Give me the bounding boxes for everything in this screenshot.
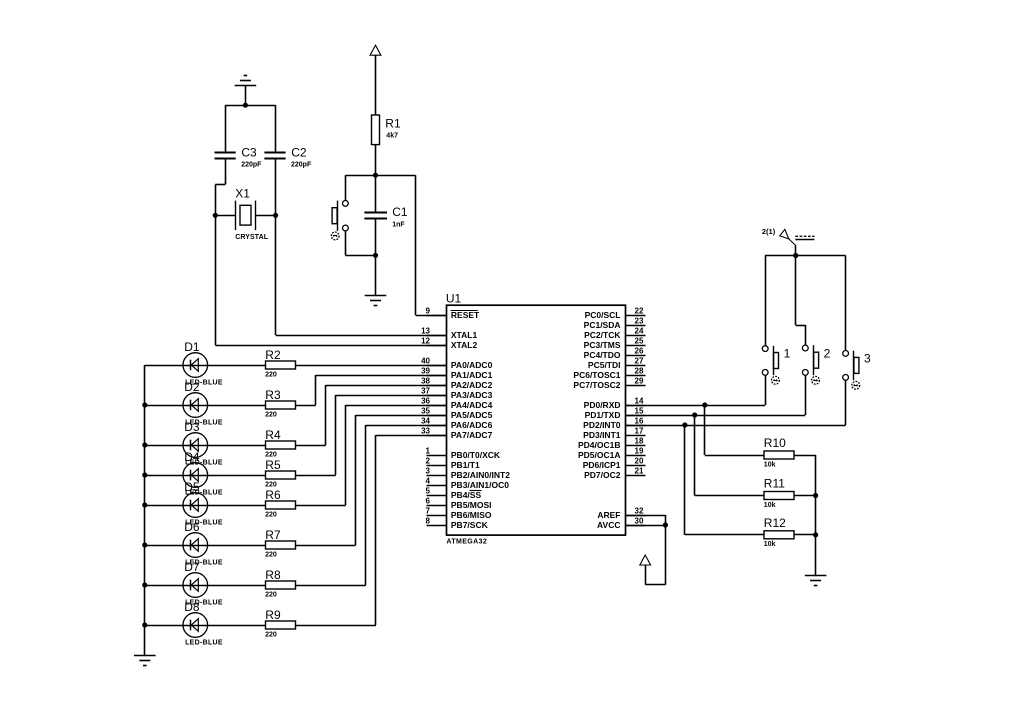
- PB4/SS overline: [470, 490, 482, 492]
- svg-text:29: 29: [635, 376, 644, 385]
- wire reset net horizontal: [345, 175, 415, 177]
- svg-text:220: 220: [265, 412, 277, 419]
- svg-text:32: 32: [635, 506, 644, 515]
- wire PD0 down to R10: [705, 405, 765, 456]
- svg-text:PA0/ADC0: PA0/ADC0: [451, 360, 493, 370]
- svg-text:220: 220: [265, 512, 277, 519]
- pin 25 stub (right): [626, 336, 646, 345]
- svg-text:PB0/T0/XCK: PB0/T0/XCK: [451, 450, 501, 460]
- svg-text:PC3/TMS: PC3/TMS: [584, 340, 621, 350]
- svg-text:PD5/OC1A: PD5/OC1A: [578, 450, 621, 460]
- wire reset net to U1 pin 9: [416, 175, 447, 315]
- node rail row 2: [142, 402, 147, 407]
- wire D2 to R3: [208, 405, 266, 407]
- svg-text:12: 12: [421, 336, 430, 345]
- svg-text:21: 21: [635, 466, 644, 475]
- svg-text:C3: C3: [241, 146, 257, 160]
- pin 28 stub (right): [626, 366, 646, 375]
- resistor R2: [265, 348, 295, 379]
- svg-text:PD4/OC1B: PD4/OC1B: [578, 440, 621, 450]
- svg-text:PA4/ADC4: PA4/ADC4: [451, 400, 493, 410]
- svg-text:24: 24: [635, 326, 644, 335]
- ground (pulldowns): [805, 576, 827, 586]
- svg-text:1nF: 1nF: [392, 222, 405, 229]
- wire R1 bottom to node: [375, 145, 377, 176]
- svg-text:220pF: 220pF: [291, 162, 312, 169]
- wire rail to D7: [145, 585, 183, 587]
- op-amp U1 outline (ATMEGA32): [447, 305, 626, 535]
- svg-text:23: 23: [635, 316, 644, 325]
- pin 38 stub (left): [421, 376, 446, 385]
- svg-text:ATMEGA32: ATMEGA32: [446, 538, 487, 545]
- svg-text:R10: R10: [764, 436, 786, 450]
- svg-text:R7: R7: [265, 528, 281, 542]
- pin 2 stub (left): [426, 456, 447, 465]
- svg-text:36: 36: [421, 396, 430, 405]
- svg-text:PB5/MOSI: PB5/MOSI: [451, 500, 492, 510]
- svg-text:R8: R8: [265, 568, 281, 582]
- pin 5 stub (left): [426, 486, 447, 495]
- svg-text:PD0/RXD: PD0/RXD: [584, 400, 621, 410]
- pin 16 stub (right): [626, 416, 646, 425]
- svg-text:14: 14: [635, 396, 644, 405]
- power symbol (top of R1): [370, 45, 381, 115]
- svg-text:D3: D3: [184, 420, 200, 434]
- wire rail to D4: [145, 475, 183, 477]
- LED D2: [183, 380, 223, 427]
- svg-text:4: 4: [426, 476, 431, 485]
- svg-text:R6: R6: [265, 488, 281, 502]
- svg-text:220: 220: [265, 632, 277, 639]
- resistor R3: [265, 388, 295, 419]
- wire R8 to U1 pin 34: [296, 425, 447, 586]
- wire PD1 down to R11: [695, 415, 765, 496]
- node R12 right: [813, 532, 818, 537]
- svg-text:19: 19: [635, 446, 644, 455]
- svg-text:20: 20: [635, 456, 644, 465]
- pin 18 stub (right): [626, 436, 646, 445]
- svg-text:1: 1: [784, 346, 791, 360]
- pin 36 stub (left): [421, 396, 446, 405]
- svg-text:16: 16: [635, 416, 644, 425]
- svg-text:R4: R4: [265, 428, 281, 442]
- node R11 right: [813, 493, 818, 498]
- svg-text:XTAL2: XTAL2: [451, 340, 478, 350]
- pin 27 stub (right): [626, 356, 646, 365]
- svg-text:CRYSTAL: CRYSTAL: [235, 234, 269, 241]
- svg-text:8: 8: [426, 516, 431, 525]
- node junction C3/C2 top: [243, 103, 248, 108]
- pin 32 stub (right): [626, 506, 646, 515]
- resistor R11: [764, 477, 794, 509]
- svg-text:13: 13: [421, 326, 430, 335]
- wire button 2 to PD1: [805, 375, 807, 415]
- svg-text:PB4/SS: PB4/SS: [451, 490, 482, 500]
- LED D3: [183, 420, 223, 467]
- svg-text:RESET: RESET: [451, 310, 480, 320]
- svg-text:R12: R12: [764, 516, 786, 530]
- wire D4 to R5: [208, 475, 266, 477]
- svg-text:PA1/ADC1: PA1/ADC1: [451, 370, 493, 380]
- svg-text:2(1): 2(1): [762, 227, 776, 236]
- pin 8 stub (left): [426, 516, 447, 525]
- svg-text:XTAL1: XTAL1: [451, 330, 478, 340]
- svg-text:17: 17: [635, 426, 644, 435]
- wire to button 3: [845, 256, 847, 351]
- capacitor C2: [264, 146, 312, 169]
- svg-text:D8: D8: [184, 600, 200, 614]
- resistor R6: [265, 488, 295, 519]
- svg-text:D2: D2: [184, 380, 200, 394]
- wire rail to D2: [145, 405, 183, 407]
- node rail row 6: [142, 542, 147, 547]
- node crystal right pin: [273, 213, 278, 218]
- wire rail to D5: [145, 505, 183, 507]
- svg-text:PB6/MISO: PB6/MISO: [451, 510, 492, 520]
- node rail row 7: [142, 582, 147, 587]
- wire to reset button top: [345, 175, 347, 200]
- svg-text:PA6/ADC6: PA6/ADC6: [451, 420, 493, 430]
- pin 4 stub (left): [426, 476, 447, 485]
- pin 15 stub (right): [626, 406, 646, 415]
- wire D5 to R6: [208, 505, 266, 507]
- pin 24 stub (right): [626, 326, 646, 335]
- svg-text:PD3/INT1: PD3/INT1: [583, 430, 621, 440]
- svg-text:U1: U1: [446, 291, 462, 305]
- svg-text:PA2/ADC2: PA2/ADC2: [451, 380, 493, 390]
- svg-text:28: 28: [635, 366, 644, 375]
- svg-text:R9: R9: [265, 608, 281, 622]
- wire D1 to R2: [208, 365, 266, 367]
- svg-text:25: 25: [635, 336, 644, 345]
- pin 21 stub (right): [626, 466, 646, 475]
- push button (reset): [331, 201, 348, 240]
- svg-text:1: 1: [426, 446, 431, 455]
- capacitor C1: [364, 175, 407, 255]
- pin 26 stub (right): [626, 346, 646, 355]
- node power rail: [793, 253, 798, 258]
- wire R12 to ground rail: [794, 534, 816, 536]
- svg-text:27: 27: [635, 356, 644, 365]
- node rail row 8: [142, 622, 147, 627]
- pin 34 stub (left): [421, 416, 446, 425]
- LED D6: [183, 520, 223, 567]
- node PD2/R12: [682, 422, 687, 427]
- wire R4 to U1 pin 38: [296, 385, 447, 446]
- LED D1: [183, 340, 223, 387]
- node C1 bottom: [373, 253, 378, 258]
- pin 9 stub (left): [426, 306, 447, 315]
- wire D7 to R8: [208, 585, 266, 587]
- pin 3 stub (left): [426, 466, 447, 475]
- svg-text:R5: R5: [265, 458, 281, 472]
- wire rail to D8: [145, 625, 183, 627]
- svg-text:PD2/INT0: PD2/INT0: [583, 420, 621, 430]
- svg-text:AVCC: AVCC: [597, 520, 620, 530]
- svg-text:PC0/SCL: PC0/SCL: [585, 310, 621, 320]
- node crystal left pin: [213, 213, 218, 218]
- svg-text:LED-BLUE: LED-BLUE: [185, 639, 223, 646]
- node rail row 5: [142, 502, 147, 507]
- resistor R9: [265, 608, 295, 639]
- svg-text:PD6/ICP1: PD6/ICP1: [583, 460, 621, 470]
- svg-text:2: 2: [426, 456, 431, 465]
- svg-text:R11: R11: [764, 477, 785, 491]
- svg-text:D7: D7: [184, 560, 200, 574]
- wire C2 bottom to XTAL1 rail: [275, 158, 277, 335]
- node PD1/R11: [692, 412, 697, 417]
- ground (below C1): [365, 296, 387, 306]
- svg-text:PD7/OC2: PD7/OC2: [584, 470, 621, 480]
- wire R5 to U1 pin 37: [296, 395, 447, 476]
- svg-text:220: 220: [265, 592, 277, 599]
- push button 1: [762, 346, 790, 384]
- svg-text:D6: D6: [184, 520, 200, 534]
- wire R2 to U1 pin 40: [296, 365, 447, 367]
- crystal X1: [215, 186, 275, 241]
- push button 3: [843, 351, 871, 390]
- svg-text:4k7: 4k7: [386, 133, 398, 140]
- wire D6 to R7: [208, 545, 266, 547]
- ground (top, above C3/C2): [235, 76, 257, 106]
- wire to AVCC power arrow: [645, 565, 665, 585]
- wire C3-top to C2-top rail: [225, 105, 275, 152]
- svg-text:PB1/T1: PB1/T1: [451, 460, 480, 470]
- node rail row 3: [142, 442, 147, 447]
- svg-text:38: 38: [421, 376, 430, 385]
- wire C3 bottom to XTAL2 rail: [215, 158, 225, 345]
- pin 1 stub (left): [426, 446, 447, 455]
- svg-text:10k: 10k: [764, 502, 776, 509]
- svg-text:PC4/TDO: PC4/TDO: [584, 350, 621, 360]
- resistor R4: [265, 428, 295, 459]
- svg-text:220pF: 220pF: [241, 162, 262, 169]
- LED D5: [183, 480, 223, 527]
- node rail row 4: [142, 472, 147, 477]
- push button 2: [802, 345, 830, 384]
- pin 12 stub (left): [421, 336, 446, 345]
- pin 14 stub (right): [626, 396, 646, 405]
- wire R9 to U1 pin 33: [296, 435, 447, 626]
- svg-text:220: 220: [265, 552, 277, 559]
- pin 29 stub (right): [626, 376, 646, 385]
- wire XTAL2 to U1 pin 12: [215, 345, 446, 347]
- svg-text:PC6/TOSC1: PC6/TOSC1: [573, 370, 620, 380]
- RESET pin name overline: [451, 310, 478, 312]
- svg-text:PC7/TOSC2: PC7/TOSC2: [573, 380, 620, 390]
- svg-text:10k: 10k: [764, 541, 776, 548]
- wire to button 1: [765, 256, 767, 346]
- resistor R10: [764, 436, 794, 468]
- pin 13 stub (left): [421, 326, 446, 335]
- LED D4: [183, 450, 223, 497]
- wire D3 to R4: [208, 445, 266, 447]
- power symbol 2(1): [762, 227, 815, 255]
- wire R10 to ground rail: [794, 455, 816, 457]
- svg-text:18: 18: [635, 436, 644, 445]
- wire U1 pin 14 to button 1: [626, 405, 766, 407]
- wire pulldown ground rail: [815, 455, 817, 575]
- svg-text:26: 26: [635, 346, 644, 355]
- resistor R12: [764, 516, 794, 548]
- svg-text:PA7/ADC7: PA7/ADC7: [451, 430, 493, 440]
- node PD0/R10: [702, 402, 707, 407]
- svg-text:PA3/ADC3: PA3/ADC3: [451, 390, 493, 400]
- pin 7 stub (left): [426, 506, 447, 515]
- svg-text:6: 6: [426, 496, 431, 505]
- svg-text:39: 39: [421, 366, 430, 375]
- svg-text:D5: D5: [184, 480, 200, 494]
- wire R3 to U1 pin 39: [296, 375, 447, 406]
- pin 22 stub (right): [626, 306, 646, 315]
- svg-text:D1: D1: [184, 340, 200, 354]
- wire AVCC (pin 30): [626, 525, 666, 527]
- resistor R1: [372, 115, 401, 145]
- pin 35 stub (left): [421, 406, 446, 415]
- svg-text:PB2/AIN0/INT2: PB2/AIN0/INT2: [451, 470, 510, 480]
- wire PD2 down to R12: [685, 425, 765, 535]
- node AVCC: [663, 522, 668, 527]
- wire rail to D6: [145, 545, 183, 547]
- pin 33 stub (left): [421, 426, 446, 435]
- wire to button 2 (with jog): [796, 256, 806, 346]
- wire R6 to U1 pin 36: [296, 405, 447, 506]
- wire R7 to U1 pin 35: [296, 415, 447, 546]
- svg-text:40: 40: [421, 356, 430, 365]
- svg-text:37: 37: [421, 386, 430, 395]
- pin 39 stub (left): [421, 366, 446, 375]
- wire AREF (pin 32): [626, 515, 666, 585]
- svg-text:C1: C1: [392, 205, 408, 219]
- svg-text:PA5/ADC5: PA5/ADC5: [451, 410, 493, 420]
- resistor R8: [265, 568, 295, 599]
- pin 20 stub (right): [626, 456, 646, 465]
- wire XTAL1 to U1 pin 13: [276, 335, 447, 337]
- pin 17 stub (right): [626, 426, 646, 435]
- wire power rail: [765, 255, 846, 257]
- svg-text:10k: 10k: [764, 461, 776, 468]
- svg-text:PB3/AIN1/OC0: PB3/AIN1/OC0: [451, 480, 509, 490]
- wire D8 to R9: [208, 625, 266, 627]
- svg-text:2: 2: [824, 346, 831, 360]
- svg-text:D4: D4: [184, 450, 200, 464]
- wire C1 bottom to ground: [375, 255, 377, 295]
- svg-text:3: 3: [426, 466, 431, 475]
- ground (LED rail bottom): [134, 656, 156, 666]
- pin 19 stub (right): [626, 446, 646, 455]
- svg-text:PC1/SDA: PC1/SDA: [584, 320, 621, 330]
- svg-text:R1: R1: [385, 117, 401, 131]
- LED D8: [183, 600, 223, 647]
- svg-text:R3: R3: [265, 388, 281, 402]
- wire rail to D1: [145, 365, 183, 367]
- svg-text:35: 35: [421, 406, 430, 415]
- wire R11 to ground rail: [794, 495, 816, 497]
- pin 6 stub (left): [426, 496, 447, 505]
- wire rail to D3: [145, 445, 183, 447]
- resistor R5: [265, 458, 295, 489]
- svg-text:7: 7: [426, 506, 431, 515]
- power symbol (AVCC): [640, 555, 651, 565]
- wire button 1 to PD0: [765, 375, 767, 405]
- svg-text:X1: X1: [235, 186, 250, 200]
- wire LED ground rail: [144, 365, 146, 655]
- svg-text:PB7/SCK: PB7/SCK: [451, 520, 489, 530]
- pin 23 stub (right): [626, 316, 646, 325]
- pin 40 stub (left): [421, 356, 446, 365]
- svg-text:30: 30: [635, 516, 644, 525]
- svg-text:34: 34: [421, 416, 430, 425]
- svg-text:AREF: AREF: [597, 510, 620, 520]
- wire U1 pin 16 to button 3: [626, 425, 846, 427]
- svg-text:33: 33: [421, 426, 430, 435]
- pin 30 stub (right): [626, 516, 646, 525]
- svg-text:C2: C2: [291, 146, 307, 160]
- wire reset button bottom: [345, 231, 375, 256]
- svg-text:PC2/TCK: PC2/TCK: [584, 330, 621, 340]
- wire button 3 to PD2: [845, 380, 847, 425]
- pin 37 stub (left): [421, 386, 446, 395]
- svg-text:220: 220: [265, 372, 277, 379]
- svg-text:22: 22: [635, 306, 644, 315]
- svg-text:PC5/TDI: PC5/TDI: [588, 360, 621, 370]
- capacitor C3: [215, 146, 263, 169]
- svg-text:3: 3: [864, 351, 871, 365]
- node R1/C1/button/reset: [373, 173, 378, 178]
- wire U1 pin 15 to button 2: [626, 415, 806, 417]
- svg-text:15: 15: [635, 406, 644, 415]
- svg-text:5: 5: [426, 486, 431, 495]
- svg-text:R2: R2: [265, 348, 281, 362]
- resistor R7: [265, 528, 295, 559]
- LED D7: [183, 560, 223, 607]
- svg-text:9: 9: [426, 306, 431, 315]
- svg-text:PD1/TXD: PD1/TXD: [585, 410, 621, 420]
